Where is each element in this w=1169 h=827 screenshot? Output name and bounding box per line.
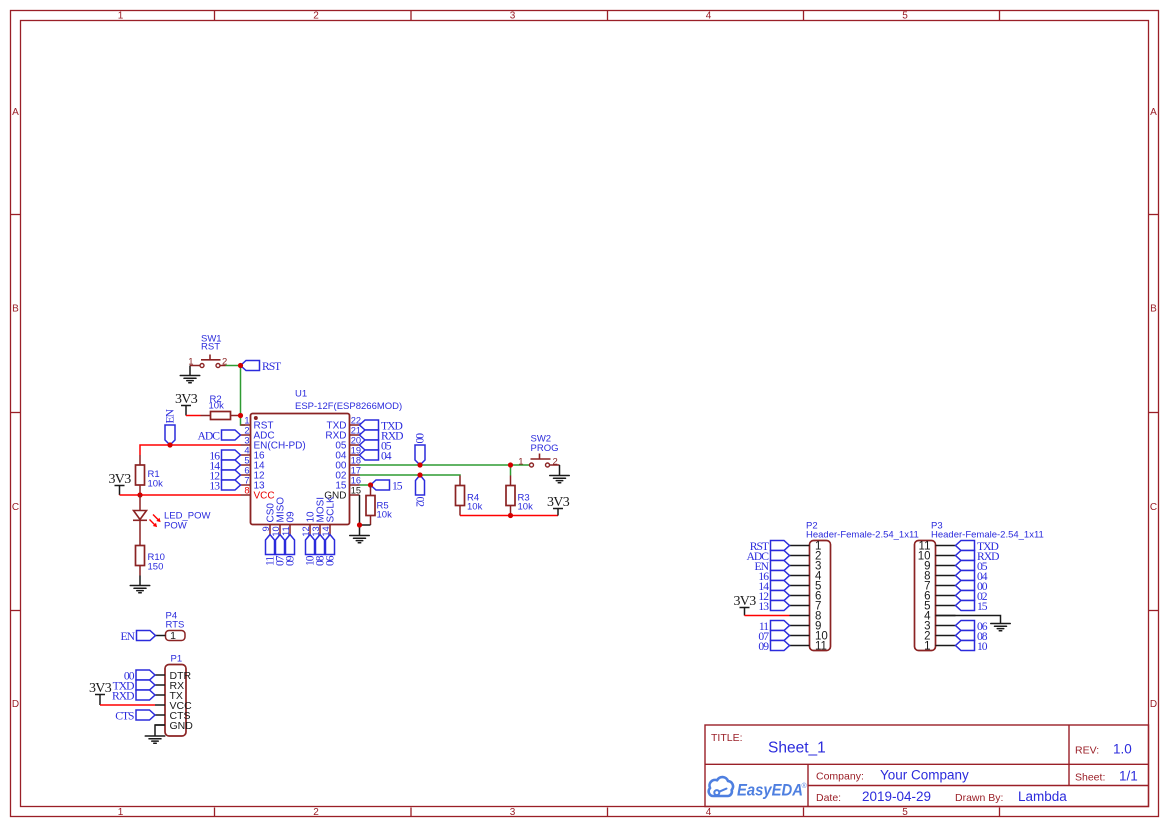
junction SW2/R3 node bbox=[508, 462, 513, 467]
wire net 15 from U1 pin16 bbox=[360, 484, 371, 486]
net flag CTS at P1 bbox=[115, 709, 155, 722]
svg-text:150: 150 bbox=[148, 562, 164, 573]
svg-text:1: 1 bbox=[118, 11, 124, 22]
svg-text:5: 5 bbox=[902, 11, 908, 22]
net flag 02 at P3 pin 6 bbox=[956, 590, 988, 603]
wire net 02 from U1 pin17 bbox=[360, 474, 461, 477]
svg-text:C: C bbox=[1150, 502, 1157, 513]
wire EN flag to P4 bbox=[156, 635, 166, 637]
svg-text:TITLE:: TITLE: bbox=[711, 732, 743, 744]
wire net 00 to SW2 bbox=[511, 464, 530, 466]
wire EN net horizontal to U1 pin3 bbox=[140, 445, 241, 455]
net flag EN at P4 bbox=[121, 630, 156, 643]
svg-text:Drawn By:: Drawn By: bbox=[955, 792, 1003, 804]
svg-text:3V3: 3V3 bbox=[175, 392, 198, 407]
svg-text:GND: GND bbox=[170, 720, 194, 732]
net flag 13 at P2 pin 7 bbox=[758, 600, 789, 613]
svg-text:7: 7 bbox=[244, 476, 249, 486]
net flag 12 bbox=[209, 469, 240, 482]
svg-text:4: 4 bbox=[706, 807, 712, 818]
resistor R3 bbox=[506, 476, 515, 516]
resistor R10 bbox=[136, 546, 145, 576]
ground under SW1 pin1 bbox=[180, 366, 200, 383]
svg-text:17: 17 bbox=[351, 466, 361, 476]
svg-text:2: 2 bbox=[244, 426, 249, 436]
net flag 00 at P3 pin 7 bbox=[956, 580, 988, 593]
svg-text:ESP-12F(ESP8266MOD): ESP-12F(ESP8266MOD) bbox=[295, 401, 402, 412]
svg-text:C: C bbox=[12, 502, 19, 513]
svg-text:4: 4 bbox=[244, 446, 249, 456]
U1 side pin stubs bbox=[241, 425, 360, 495]
svg-text:Date:: Date: bbox=[816, 792, 841, 804]
svg-text:SCLK: SCLK bbox=[325, 496, 336, 522]
svg-text:EasyEDA: EasyEDA bbox=[737, 781, 803, 800]
wire 3V3 to P1 VCC bbox=[100, 704, 155, 706]
wire RST node down to U1 pin1 bbox=[241, 366, 246, 426]
connector P4 body bbox=[166, 631, 186, 641]
net flag 16 at P2 pin 4 bbox=[758, 570, 789, 583]
net flag 00 (vertical) bbox=[414, 433, 427, 465]
svg-text:3: 3 bbox=[244, 436, 249, 446]
net flag RXD bbox=[360, 429, 404, 442]
junction EN flag bbox=[167, 442, 172, 447]
svg-text:Header-Female-2.54_1x11: Header-Female-2.54_1x11 bbox=[806, 530, 919, 541]
wire SW1 pin2 to RST node bbox=[226, 365, 241, 367]
LED LED_POW bbox=[133, 511, 147, 521]
U1 pin numbers 1-8 and 22-15 bbox=[244, 416, 361, 496]
ground under U1 GND pin bbox=[350, 535, 370, 537]
svg-text:3V3: 3V3 bbox=[108, 472, 131, 487]
net flag 06 at P3 pin 3 bbox=[956, 620, 988, 633]
svg-text:®: ® bbox=[802, 782, 808, 790]
net flag 09 at P2 pin 11 bbox=[758, 640, 789, 653]
svg-text:5: 5 bbox=[244, 456, 249, 466]
resistor R5 bbox=[366, 485, 375, 525]
svg-text:10k: 10k bbox=[518, 501, 534, 512]
svg-text:6: 6 bbox=[244, 466, 249, 476]
net flag 14 at P2 pin 5 bbox=[758, 580, 789, 593]
svg-text:VCC: VCC bbox=[254, 491, 275, 502]
connector P3 body bbox=[915, 541, 936, 651]
svg-text:1: 1 bbox=[924, 641, 930, 653]
svg-text:RXD: RXD bbox=[112, 689, 134, 702]
3V3 power symbol at P2 bbox=[733, 594, 756, 616]
junction net 15 / R5 bbox=[368, 482, 373, 487]
svg-text:Sheet_1: Sheet_1 bbox=[768, 740, 826, 757]
frame column labels bbox=[118, 11, 909, 819]
svg-text:3: 3 bbox=[510, 807, 516, 818]
svg-text:EN: EN bbox=[164, 408, 177, 423]
net flag TXD at P3 pin 11 bbox=[956, 540, 999, 553]
svg-text:Company:: Company: bbox=[816, 771, 864, 783]
LED emission arrows bbox=[150, 515, 161, 528]
svg-text:D: D bbox=[1150, 699, 1157, 710]
net flag 15 at P3 pin 5 bbox=[956, 600, 988, 613]
net flag 05 at P3 pin 9 bbox=[956, 560, 988, 573]
junction R1 bottom on VCC rail bbox=[137, 492, 142, 497]
junction R3 bottom bbox=[508, 513, 513, 518]
junction net 02 flag bbox=[417, 472, 422, 477]
wire U1 GND pin15 to ground bbox=[359, 495, 361, 536]
net flag 13 bbox=[209, 479, 240, 492]
svg-text:09: 09 bbox=[285, 511, 296, 523]
svg-text:1: 1 bbox=[118, 807, 124, 818]
frame row labels bbox=[12, 107, 1157, 710]
svg-text:Sheet:: Sheet: bbox=[1075, 772, 1105, 784]
3V3 power symbol at P1 bbox=[89, 681, 112, 705]
net flag 02 (vertical) bbox=[414, 475, 427, 507]
svg-text:REV:: REV: bbox=[1075, 745, 1099, 757]
svg-text:09: 09 bbox=[758, 640, 769, 653]
svg-text:06: 06 bbox=[324, 555, 337, 566]
wire net 00 from U1 pin18 bbox=[360, 464, 511, 466]
net flag 15 bbox=[371, 479, 403, 492]
wire R4/R3 bottoms to 3V3 bbox=[460, 515, 558, 517]
frame column ticks bbox=[215, 11, 1000, 817]
svg-text:3V3: 3V3 bbox=[547, 495, 570, 510]
net flag ADC bbox=[198, 429, 241, 442]
svg-text:10k: 10k bbox=[467, 501, 483, 512]
net flag TXD at P1 bbox=[113, 679, 155, 692]
svg-text:B: B bbox=[1150, 304, 1157, 315]
svg-text:10k: 10k bbox=[377, 509, 393, 520]
svg-text:13: 13 bbox=[209, 479, 220, 492]
resistor R2 bbox=[201, 412, 241, 420]
svg-text:11: 11 bbox=[815, 641, 827, 653]
3V3 power symbol at VCC rail bbox=[108, 472, 131, 495]
net flag RST bbox=[241, 360, 282, 373]
svg-text:Lambda: Lambda bbox=[1018, 789, 1067, 804]
3V3 power symbol right bbox=[547, 495, 570, 516]
svg-text:POW: POW bbox=[164, 520, 187, 531]
U1 pin1 marker dot bbox=[254, 416, 258, 420]
svg-text:P1: P1 bbox=[171, 654, 183, 665]
svg-text:8: 8 bbox=[244, 486, 249, 496]
P2 pins and pin numbers bbox=[790, 541, 828, 653]
svg-text:04: 04 bbox=[381, 449, 392, 462]
ground at P1 GND pin bbox=[145, 725, 165, 743]
net flag 12 at P2 pin 6 bbox=[758, 590, 789, 603]
connector P2 body bbox=[810, 541, 831, 651]
ground under R10 bbox=[130, 576, 150, 593]
svg-text:16: 16 bbox=[351, 476, 361, 486]
net flag TXD bbox=[360, 419, 403, 432]
svg-text:Your Company: Your Company bbox=[880, 768, 969, 783]
junction RST node bbox=[238, 363, 243, 368]
svg-text:PROG: PROG bbox=[531, 443, 559, 454]
switch SW2 bbox=[530, 454, 560, 468]
svg-text:RST: RST bbox=[262, 360, 281, 373]
svg-text:1: 1 bbox=[518, 457, 523, 468]
U1 bottom pin names bbox=[265, 496, 336, 522]
net flag 14 bbox=[209, 459, 240, 472]
svg-text:15: 15 bbox=[392, 479, 403, 492]
svg-text:1/1: 1/1 bbox=[1119, 769, 1138, 784]
net flag EN at P2 pin 3 bbox=[755, 560, 790, 573]
net flag RXD at P1 bbox=[112, 689, 155, 702]
svg-text:3V3: 3V3 bbox=[733, 594, 756, 609]
svg-text:15: 15 bbox=[977, 600, 988, 613]
P3 pins and pin numbers bbox=[918, 541, 956, 653]
svg-text:B: B bbox=[12, 304, 19, 315]
U1 bottom pin stubs bbox=[270, 525, 330, 535]
junction R5/GND bbox=[357, 522, 362, 527]
svg-text:2: 2 bbox=[313, 807, 319, 818]
net flags under U1: 11 07 09 10 08 06 bbox=[264, 535, 337, 567]
svg-text:4: 4 bbox=[706, 11, 712, 22]
svg-text:5: 5 bbox=[902, 807, 908, 818]
svg-text:1.0: 1.0 bbox=[1113, 742, 1132, 757]
svg-text:2: 2 bbox=[553, 457, 558, 468]
wire LED to R10 bbox=[139, 520, 141, 545]
svg-text:EN: EN bbox=[121, 630, 136, 643]
connector P1 body bbox=[165, 665, 186, 737]
wire P3 pin4 to ground bbox=[936, 616, 1001, 624]
wire VCC rail to U1 pin8 bbox=[120, 494, 241, 496]
ground at SW2 pin2 bbox=[550, 465, 570, 483]
net flag 04 bbox=[360, 449, 392, 462]
svg-text:2: 2 bbox=[313, 11, 319, 22]
svg-text:A: A bbox=[1150, 107, 1157, 118]
3V3 power symbol at R2 bbox=[175, 392, 198, 416]
svg-text:1: 1 bbox=[244, 416, 249, 426]
net flag ADC at P2 pin 2 bbox=[747, 550, 790, 563]
resistor R4 bbox=[456, 476, 465, 516]
svg-text:10: 10 bbox=[977, 640, 988, 653]
net flag 16 bbox=[209, 449, 240, 462]
svg-text:18: 18 bbox=[351, 456, 361, 466]
svg-text:A: A bbox=[12, 107, 19, 118]
svg-text:RTS: RTS bbox=[166, 620, 185, 631]
net flag 10 at P3 pin 1 bbox=[956, 640, 988, 653]
svg-text:10k: 10k bbox=[148, 478, 164, 489]
svg-text:13: 13 bbox=[758, 600, 769, 613]
net flag 05 bbox=[360, 439, 392, 452]
U1 bottom pin numbers 9-14 bbox=[261, 526, 331, 536]
net flag 07 at P2 pin 10 bbox=[758, 630, 789, 643]
wire R5 bottom to ground line bbox=[360, 524, 371, 526]
IC U1 body bbox=[251, 414, 350, 525]
svg-text:3V3: 3V3 bbox=[89, 681, 112, 696]
svg-text:15: 15 bbox=[351, 486, 361, 496]
EasyEDA logo cloud bbox=[709, 777, 733, 796]
wire 3V3 to R2 bbox=[186, 415, 201, 417]
svg-text:1: 1 bbox=[170, 630, 176, 642]
svg-text:ADC: ADC bbox=[198, 429, 221, 442]
svg-text:U1: U1 bbox=[295, 389, 307, 400]
svg-text:D: D bbox=[12, 699, 19, 710]
P1 pins and pin names bbox=[155, 670, 193, 732]
net flag 11 at P2 pin 9 bbox=[759, 620, 790, 633]
net flag RXD at P3 pin 10 bbox=[956, 550, 1000, 563]
svg-text:CTS: CTS bbox=[115, 709, 134, 722]
svg-text:2019-04-29: 2019-04-29 bbox=[862, 789, 931, 804]
svg-text:02: 02 bbox=[414, 497, 427, 508]
wire 3V3 to P2 pin8 bbox=[745, 615, 790, 617]
wire junction 00 down to R3 bbox=[510, 465, 512, 476]
net flag 04 at P3 pin 8 bbox=[956, 570, 988, 583]
junction R2 to U1 pin1 bbox=[238, 413, 243, 418]
svg-text:09: 09 bbox=[284, 555, 297, 566]
svg-text:3: 3 bbox=[510, 11, 516, 22]
net flag RST at P2 pin 1 bbox=[750, 540, 790, 553]
wire R1 to LED bbox=[139, 495, 141, 511]
frame row ticks bbox=[11, 215, 1159, 611]
U1 pin names bbox=[254, 421, 347, 502]
svg-text:9: 9 bbox=[261, 526, 271, 531]
junction net 00 flag bbox=[417, 462, 422, 467]
ground at P3 pin4 bbox=[991, 623, 1011, 625]
net flag 08 at P3 pin 2 bbox=[956, 630, 988, 643]
svg-text:10k: 10k bbox=[209, 401, 225, 412]
svg-text:00: 00 bbox=[414, 433, 427, 444]
net flag EN (vertical) bbox=[164, 408, 177, 445]
switch SW1 bbox=[190, 355, 226, 368]
resistor R1 bbox=[136, 455, 145, 495]
svg-text:1: 1 bbox=[188, 356, 193, 367]
svg-text:RST: RST bbox=[201, 342, 220, 353]
title block frame bbox=[705, 725, 1149, 807]
net flag 00 at P1 bbox=[124, 669, 155, 682]
